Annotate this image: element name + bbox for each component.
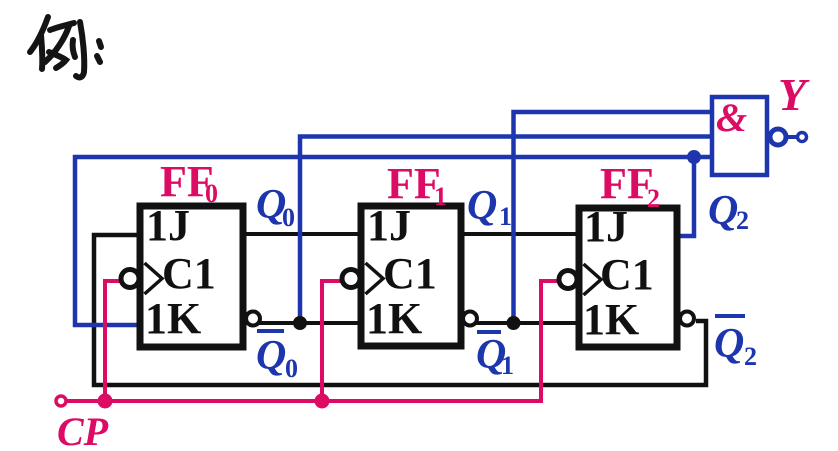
FF0 clock triangle xyxy=(145,263,163,294)
wire CP riser to FF1 clock xyxy=(322,281,343,401)
svg-text:1J: 1J xyxy=(146,201,190,250)
svg-text:2: 2 xyxy=(744,342,757,371)
svg-text:0: 0 xyxy=(205,179,218,208)
svg-text:Y: Y xyxy=(778,69,810,120)
svg-text:CP: CP xyxy=(57,409,109,451)
svg-text:&: & xyxy=(716,95,747,140)
flip-flop FF0 box xyxy=(121,201,260,347)
FF0 Q̄ bubble xyxy=(246,312,260,326)
node junction Q̄1/blue riser xyxy=(507,316,521,330)
wire blue Q̄1 riser to NAND input 1 xyxy=(514,112,713,323)
svg-text:C1: C1 xyxy=(600,250,654,299)
svg-text:1K: 1K xyxy=(145,294,201,343)
svg-text:Q: Q xyxy=(708,188,738,234)
gate U1 NAND box xyxy=(712,97,767,175)
svg-text:0: 0 xyxy=(282,203,295,232)
svg-text:Q: Q xyxy=(467,183,497,229)
svg-text:Q: Q xyxy=(714,321,744,367)
flip-flop FF2 box xyxy=(559,202,694,347)
handwritten title 例: xyxy=(30,17,101,77)
flip-flop FF1 box xyxy=(342,201,477,346)
svg-text:FF: FF xyxy=(387,159,441,208)
FF2 Q̄ bubble xyxy=(680,312,694,326)
svg-text:1: 1 xyxy=(501,351,514,380)
svg-text:1K: 1K xyxy=(366,294,422,343)
wire CP riser to FF0 clock xyxy=(105,281,123,401)
label Q̄2 xyxy=(715,314,745,318)
svg-text:1J: 1J xyxy=(367,201,411,250)
FF1 clock triangle xyxy=(366,263,384,294)
svg-text:Q: Q xyxy=(256,333,286,379)
FF2 clock bubble xyxy=(559,271,577,289)
svg-text:1: 1 xyxy=(499,202,512,231)
FF1 clock bubble xyxy=(342,270,360,288)
svg-text:1K: 1K xyxy=(583,295,639,344)
wire CP main magenta xyxy=(66,281,560,401)
FF2 clock triangle xyxy=(584,264,602,295)
svg-text:C1: C1 xyxy=(162,249,216,298)
svg-text:2: 2 xyxy=(647,184,660,213)
wire Q1 to FF2 1J xyxy=(459,232,578,236)
node junction Q̄0/blue riser xyxy=(293,316,307,330)
label Q̄0 xyxy=(257,329,284,333)
svg-text:1: 1 xyxy=(434,182,447,211)
node junction Q2/NAND input xyxy=(687,150,701,164)
wire blue Q2 output tap xyxy=(677,157,694,236)
svg-text:2: 2 xyxy=(736,206,749,235)
label Q̄1 xyxy=(477,330,501,334)
node junction CP/FF0 riser xyxy=(98,394,113,409)
wire Q0 to FF1 1J xyxy=(244,232,360,236)
svg-text:0: 0 xyxy=(285,354,298,383)
FF1 Q̄ bubble xyxy=(463,312,477,326)
node Y output terminal xyxy=(798,133,807,142)
node junction CP/FF1 riser xyxy=(315,394,330,409)
wire J0 feedback from Q̄2 (black, bottom loop) xyxy=(94,235,706,385)
wire Y output stub xyxy=(787,135,797,139)
NAND output bubble xyxy=(770,129,786,145)
wire blue Q̄0 riser to NAND input 2 xyxy=(300,137,712,324)
svg-text:FF: FF xyxy=(600,159,654,208)
svg-text:1J: 1J xyxy=(584,202,628,251)
wire blue net Q2 to NAND input 3 and FF0 1K xyxy=(75,157,712,325)
node CP input terminal xyxy=(56,396,66,406)
svg-text:C1: C1 xyxy=(383,249,437,298)
wire Q̄1 to FF2 1K xyxy=(476,321,578,325)
FF0 clock bubble xyxy=(121,270,139,288)
wire Q̄0 to FF1 1K xyxy=(259,321,360,325)
